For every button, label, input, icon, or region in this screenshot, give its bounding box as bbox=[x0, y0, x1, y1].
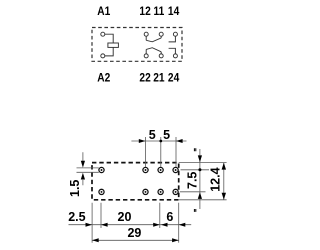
dim 6 left arrow bbox=[161, 223, 168, 227]
svg-text:A2: A2 bbox=[97, 72, 110, 85]
hole 24 bbox=[173, 189, 178, 194]
dim 20 right arrow bbox=[153, 223, 160, 227]
dim 5-5 left arrow bbox=[139, 139, 146, 143]
svg-text:A1: A1 bbox=[97, 5, 110, 18]
svg-text:1.5: 1.5 bbox=[68, 180, 82, 197]
NO contact 24 bbox=[169, 48, 176, 54]
contact terminal 14 bbox=[173, 32, 177, 36]
dim 7.5 bottom arrow bbox=[198, 192, 202, 199]
bottom extension line hole col A bbox=[100, 203, 102, 228]
svg-text:6: 6 bbox=[166, 210, 173, 224]
contact terminal 11 bbox=[159, 32, 163, 36]
svg-text:22: 22 bbox=[139, 72, 150, 85]
svg-text:7.5: 7.5 bbox=[185, 172, 199, 189]
dim 20 left arrow bbox=[101, 223, 108, 227]
stub pin 21 bbox=[160, 52, 162, 54]
bottom extension line hole col 21 bbox=[159, 203, 161, 228]
hole A1 bbox=[99, 167, 104, 172]
hole 11 bbox=[158, 167, 163, 172]
dim 6 right arrow bbox=[179, 223, 186, 227]
stub pin 22 bbox=[145, 49, 147, 54]
coil terminal A2 bbox=[101, 54, 105, 58]
relay outline dashed box bbox=[92, 28, 182, 62]
dim 5-5 middle dot bbox=[159, 140, 162, 143]
stub pin 12 bbox=[145, 36, 147, 40]
contact terminal 24 bbox=[173, 54, 177, 58]
dim 5-5 line bbox=[131, 140, 186, 142]
dim chain line 2.5/20/6 bbox=[69, 224, 192, 226]
svg-text:20: 20 bbox=[118, 210, 132, 224]
dim 12.4 line bbox=[223, 163, 225, 200]
svg-text:5: 5 bbox=[149, 128, 156, 142]
hole A2 bbox=[99, 189, 104, 194]
svg-text:11: 11 bbox=[154, 5, 165, 18]
contact terminal 21 bbox=[159, 54, 163, 58]
footprint outline dashed box bbox=[92, 163, 179, 200]
tick mark top bbox=[194, 148, 195, 151]
dim 1.5 upper arrow bbox=[82, 152, 84, 162]
bottom extension line box right bbox=[178, 203, 180, 243]
svg-text:21: 21 bbox=[153, 72, 164, 85]
dim 2.5 arrow bbox=[86, 223, 93, 227]
svg-text:12.4: 12.4 bbox=[208, 167, 222, 191]
coil terminal A1 bbox=[101, 32, 105, 36]
dim 7.5 top arrow bbox=[198, 155, 202, 162]
dim 29 right arrow bbox=[172, 238, 179, 242]
contact terminal 22 bbox=[144, 54, 148, 58]
tick mark bottom bbox=[194, 209, 195, 212]
hole 21 bbox=[158, 189, 163, 194]
svg-text:2.5: 2.5 bbox=[68, 210, 85, 224]
svg-text:14: 14 bbox=[168, 5, 180, 18]
dim 7.5 chain dot bbox=[198, 168, 201, 171]
blade pole1 bbox=[146, 38, 161, 42]
contact terminal 12 bbox=[144, 32, 148, 36]
coil bbox=[108, 43, 119, 47]
dim 5-5 right arrow bbox=[176, 139, 183, 143]
hole 22 bbox=[143, 189, 148, 194]
stub pin 11 bbox=[160, 36, 162, 38]
NO contact 14 bbox=[169, 36, 176, 42]
blade pole2 bbox=[146, 48, 161, 52]
dim 1.5 lower arrow bbox=[81, 173, 85, 180]
dim 29 left arrow bbox=[92, 238, 99, 242]
svg-text:5: 5 bbox=[163, 128, 170, 142]
box top extension line bbox=[179, 162, 227, 164]
top hole row extension line bbox=[181, 169, 210, 171]
dim 7.5 line bbox=[199, 149, 201, 209]
svg-text:24: 24 bbox=[168, 72, 180, 85]
bottom extension line box left bbox=[91, 203, 93, 243]
dim 12.4 bottom arrow bbox=[222, 193, 226, 200]
dim 29 line bbox=[92, 239, 179, 241]
svg-text:29: 29 bbox=[127, 226, 141, 240]
dim 1.5 extension lines bbox=[77, 168, 99, 172]
hole 12 bbox=[143, 167, 148, 172]
dim 12.4 top arrow bbox=[222, 163, 226, 170]
dim 5-5 extension lines bbox=[145, 137, 176, 167]
wire A1 to coil bbox=[105, 34, 113, 43]
box bottom extension line bbox=[179, 199, 227, 201]
wire coil to A2 bbox=[105, 47, 113, 56]
hole 14 bbox=[173, 167, 178, 172]
bottom hole row extension line bbox=[180, 191, 206, 193]
svg-text:12: 12 bbox=[139, 5, 150, 18]
